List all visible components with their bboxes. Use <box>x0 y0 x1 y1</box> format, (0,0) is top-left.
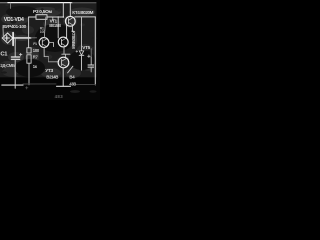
node: bridge output bar <box>12 33 14 46</box>
wire: stub down at x52.8 <box>52 17 54 21</box>
wire: bridge output to bus <box>13 37 31 39</box>
wire: VT1 base jog right <box>49 43 54 47</box>
svg-text:VD1-VD4: VD1-VD4 <box>4 17 24 23</box>
wire: VT5 branch vertical <box>81 17 83 51</box>
capacitor C2 plates <box>88 64 94 66</box>
transistor VT2 circle <box>58 37 68 47</box>
resistor R6 <box>27 48 31 53</box>
wire: left input lead into bridge <box>2 28 4 36</box>
rule: bottom right dim <box>71 84 96 86</box>
wire: C2 upper lead dim <box>90 49 92 58</box>
diode mark inside bridge <box>4 37 9 39</box>
diode VD5 zener <box>79 51 83 55</box>
wire: rail drop to VT4 <box>69 3 71 17</box>
transistor VT3 circle <box>58 57 69 68</box>
wire: right conductor <box>94 17 96 85</box>
svg-text:483: 483 <box>55 94 64 99</box>
svg-text:В214В: В214В <box>46 74 58 79</box>
rule: bottom center dim <box>23 83 56 85</box>
transistor VT4 circle <box>65 16 75 26</box>
svg-text:КТ805БМ: КТ805БМ <box>71 31 76 49</box>
wire: VT3 base row <box>49 61 59 63</box>
svg-text:С1: С1 <box>0 51 8 57</box>
wire: center bus vertical <box>28 17 30 48</box>
wire: ground bar <box>57 85 71 87</box>
wire: VT2 feed right <box>66 25 68 38</box>
wire: jog at y54 <box>62 53 70 55</box>
wire: rail drop at x63 <box>62 3 64 17</box>
polarity plus C1 <box>19 53 22 56</box>
svg-text:УТЗ: УТЗ <box>45 68 53 73</box>
wire: top rail left dim <box>0 2 8 4</box>
wire: VT1 emitter down <box>43 47 45 56</box>
node junction on bus <box>28 37 30 39</box>
wire: right top row <box>75 16 96 18</box>
svg-text:43В: 43В <box>69 82 76 87</box>
resistor R3 <box>36 15 47 20</box>
scan noise <box>1 4 97 93</box>
polarity plus near zener <box>76 51 78 53</box>
svg-text:VT5: VT5 <box>82 45 90 50</box>
wire: rail drop to bridge input <box>10 3 12 9</box>
wire: bus to R3 <box>29 16 36 18</box>
capacitor C1 upper lead <box>14 38 16 57</box>
wire: C1 lower lead <box>14 60 16 89</box>
wire: VT2 emitter down <box>63 47 65 54</box>
wire: VT4 emitter down <box>72 26 74 31</box>
wire: top rail right dim <box>72 2 96 4</box>
resistor R7 <box>27 55 31 63</box>
bridge rectifier VD1-VD4 diamond <box>2 33 12 43</box>
caption plus mark <box>26 87 29 89</box>
figure area tonal lift <box>0 3 97 77</box>
capacitor C1 plates <box>11 56 19 58</box>
svg-text:2Д-СМБ: 2Д-СМБ <box>0 63 15 68</box>
svg-text:КТ4 В020М: КТ4 В020М <box>72 10 93 15</box>
wire: top rail bright <box>8 2 72 4</box>
wire: VT2 feed right dim top <box>66 18 68 26</box>
svg-text:ВУР401-100: ВУР401-100 <box>2 24 26 30</box>
svg-text:В015В: В015В <box>49 23 61 28</box>
background <box>0 0 100 100</box>
svg-text:Р1: Р1 <box>33 42 37 46</box>
wire: R7 lead to rule <box>28 63 30 85</box>
wire: VT1 collector riser <box>44 17 46 38</box>
wire: VT3 emitter down <box>62 68 64 86</box>
node at riser top <box>63 16 65 18</box>
transistor VT1 circle <box>39 38 49 48</box>
svg-text:100: 100 <box>33 48 40 53</box>
node at VT2 left feed <box>58 16 59 17</box>
wire: C2 upper lead <box>90 57 92 65</box>
svg-text:100: 100 <box>40 30 45 34</box>
wire: C2 lower lead <box>90 67 92 72</box>
svg-text:Р3 0,5Ом: Р3 0,5Ом <box>33 9 52 15</box>
rule: bottom left bright <box>2 84 23 86</box>
wire: VT3 collector diagonal <box>68 66 73 73</box>
wire: R3 to x63 riser <box>47 16 63 18</box>
polarity plus C2 <box>88 55 91 58</box>
wire: zener lead down <box>81 55 83 70</box>
wire: VT2 feed left <box>57 17 59 38</box>
